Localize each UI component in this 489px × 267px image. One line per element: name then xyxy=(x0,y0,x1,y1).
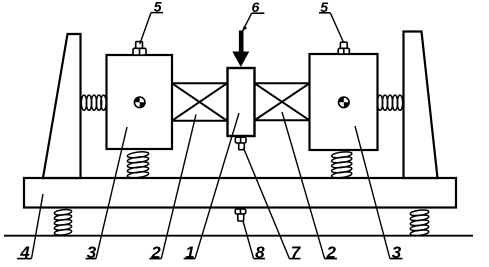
center of mass symbol left block xyxy=(134,97,145,108)
svg-text:8: 8 xyxy=(255,243,265,262)
leader line label 5 left xyxy=(140,13,163,44)
vertical spring under base plate left xyxy=(54,209,72,236)
leader line label 3 left xyxy=(86,127,128,259)
leader line label 1 xyxy=(184,113,239,259)
bolt on top of left block xyxy=(133,42,146,55)
leader line label 2 left xyxy=(149,115,196,259)
svg-text:2: 2 xyxy=(325,243,336,262)
svg-text:3: 3 xyxy=(87,243,97,262)
leader line label 2 right xyxy=(282,112,337,259)
left lattice brace (X) xyxy=(172,83,227,120)
svg-text:6: 6 xyxy=(252,0,260,15)
leader line label 6 xyxy=(242,13,264,32)
leader line label 7 xyxy=(244,148,301,259)
leader line label 5 right xyxy=(319,13,344,43)
svg-text:1: 1 xyxy=(185,243,194,262)
bolt under base plate xyxy=(235,209,246,221)
left post xyxy=(43,34,81,178)
svg-text:2: 2 xyxy=(150,243,161,262)
central column xyxy=(228,68,255,136)
right post xyxy=(404,32,438,179)
right lattice brace (X) xyxy=(255,83,310,120)
center of mass symbol right block xyxy=(339,97,350,108)
svg-text:5: 5 xyxy=(154,0,162,15)
leader line label 3 right xyxy=(355,126,403,259)
left block xyxy=(107,55,173,149)
vertical spring under left block xyxy=(127,151,149,179)
svg-text:4: 4 xyxy=(19,243,30,262)
bolt under central column xyxy=(235,137,246,150)
bolt on top of right block xyxy=(338,42,349,54)
force arrow shaft xyxy=(239,31,244,53)
force arrow head xyxy=(232,52,249,68)
right horizontal spring xyxy=(377,95,402,110)
leader line label 4 xyxy=(17,194,43,259)
left horizontal spring xyxy=(81,95,106,110)
leader line label 8 xyxy=(243,221,265,259)
vertical spring under right block xyxy=(331,151,352,179)
right block xyxy=(310,54,378,150)
svg-text:3: 3 xyxy=(392,243,402,262)
vertical spring under base plate right xyxy=(410,209,429,236)
base plate xyxy=(24,178,456,208)
ground line xyxy=(4,235,473,237)
svg-text:7: 7 xyxy=(291,243,302,262)
svg-text:5: 5 xyxy=(320,0,328,15)
